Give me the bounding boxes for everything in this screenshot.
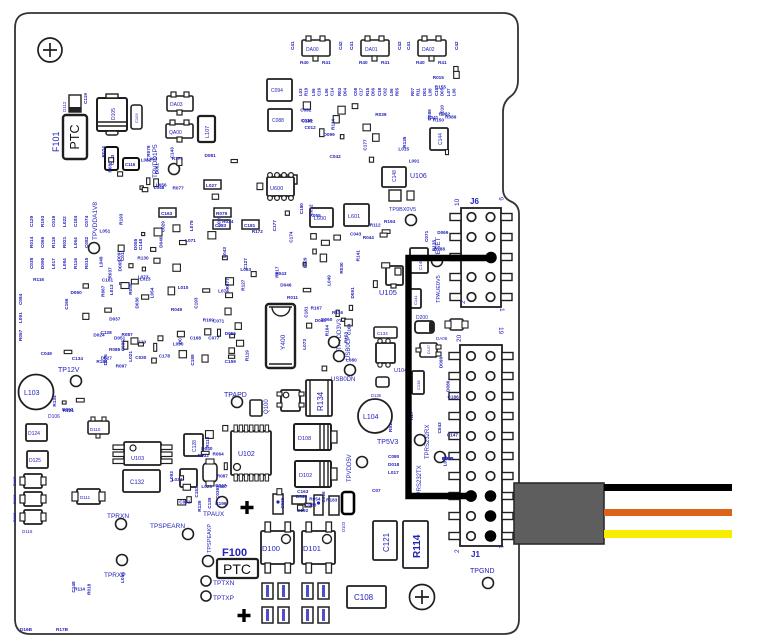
svg-text:19: 19 — [497, 327, 504, 335]
cluster of small unlabeled passives (upper center) — [300, 102, 448, 164]
svg-text:L078: L078 — [189, 220, 194, 231]
svg-text:L104: L104 — [363, 414, 379, 421]
svg-text:C042: C042 — [330, 154, 342, 159]
svg-text:TP12V: TP12V — [58, 367, 80, 374]
testpoint pad TPRS232RX — [435, 452, 446, 463]
svg-text:R054: R054 — [309, 497, 321, 502]
polarity mark + (lower) — [238, 609, 251, 622]
svg-text:R193: R193 — [119, 213, 124, 225]
svg-text:R40: R40 — [359, 60, 368, 65]
IC U105 — [386, 266, 403, 288]
svg-text:R51: R51 — [388, 423, 393, 432]
small part below U106 — [389, 190, 401, 201]
inductor L104 — [358, 399, 392, 433]
svg-text:C129: C129 — [29, 215, 34, 227]
diode D125 — [27, 451, 48, 468]
svg-text:1: 1 — [497, 545, 504, 549]
svg-text:C41: C41 — [349, 41, 354, 50]
svg-text:DA03: DA03 — [170, 102, 183, 108]
svg-text:L015: L015 — [120, 572, 125, 583]
svg-text:C188: C188 — [190, 354, 195, 366]
svg-text:R116: R116 — [73, 258, 78, 269]
boxed polarized capacitor labels — [159, 175, 297, 229]
svg-text:L091: L091 — [409, 159, 420, 164]
svg-text:C071: C071 — [213, 319, 225, 324]
capacitor C132 — [123, 470, 160, 492]
testpoint pad TPAUX — [217, 497, 228, 508]
svg-text:L017: L017 — [388, 470, 399, 475]
svg-text:C147: C147 — [447, 433, 459, 438]
svg-text:R169: R169 — [203, 318, 215, 323]
svg-text:R112: R112 — [370, 222, 381, 227]
svg-text:R119: R119 — [245, 350, 250, 361]
svg-text:C071: C071 — [424, 230, 429, 242]
svg-text:C036: C036 — [215, 487, 220, 499]
svg-text:1: 1 — [498, 308, 505, 312]
left-edge vertical labels — [18, 293, 23, 341]
svg-text:Y400: Y400 — [280, 334, 287, 350]
svg-text:L049: L049 — [326, 275, 331, 286]
svg-text:U600: U600 — [270, 186, 283, 192]
svg-text:D04: D04 — [343, 87, 348, 96]
svg-text:D061: D061 — [155, 163, 160, 175]
svg-text:C177: C177 — [363, 139, 368, 151]
svg-text:L021: L021 — [128, 351, 133, 362]
PCB board outline — [15, 13, 519, 634]
svg-text:C181: C181 — [244, 223, 256, 228]
svg-text:U103: U103 — [131, 456, 144, 462]
capacitor C103 (small, right of D105) — [131, 105, 142, 129]
svg-text:R044: R044 — [363, 235, 375, 240]
svg-text:C14: C14 — [330, 87, 335, 96]
svg-text:DA01: DA01 — [365, 47, 378, 53]
diode chain D117-D119 (left edge) — [12, 474, 46, 534]
svg-text:R15: R15 — [365, 87, 370, 96]
testpoint pad TPSPEARN — [183, 529, 194, 540]
testpoint pad TPVDDA1V8 — [89, 243, 100, 254]
transistor DA02 — [406, 36, 459, 65]
svg-text:R141: R141 — [355, 250, 360, 262]
svg-text:D119: D119 — [12, 512, 17, 522]
svg-text:R018: R018 — [87, 583, 92, 595]
svg-text:C103: C103 — [134, 113, 139, 123]
testpoint pad TPRXN — [116, 519, 127, 530]
svg-text:C065: C065 — [280, 497, 285, 509]
capacitor C108 — [347, 586, 386, 608]
svg-text:R021: R021 — [62, 236, 67, 248]
svg-text:D040: D040 — [159, 236, 164, 248]
capacitor C144 — [430, 128, 448, 150]
wire junction dot at J1 — [465, 490, 477, 502]
svg-text:F100: F100 — [222, 547, 247, 559]
svg-text:D089: D089 — [427, 109, 432, 121]
capacitor C117 — [180, 469, 197, 487]
svg-text:USB0DN: USB0DN — [331, 377, 355, 383]
svg-text:C119: C119 — [83, 93, 88, 104]
svg-text:D024: D024 — [93, 332, 105, 337]
header J1 outline — [460, 345, 502, 546]
svg-text:C127: C127 — [243, 258, 248, 270]
svg-text:D107: D107 — [427, 345, 431, 354]
cluster of small unlabeled passives (center) — [272, 203, 395, 300]
svg-text:L054: L054 — [149, 287, 154, 298]
svg-text:R088: R088 — [128, 283, 133, 295]
cluster of small unlabeled passives (below Y400) — [302, 305, 357, 370]
svg-text:U104: U104 — [394, 368, 407, 374]
svg-text:R077: R077 — [173, 185, 185, 190]
svg-text:C181: C181 — [303, 306, 308, 318]
svg-text:R039: R039 — [375, 112, 387, 117]
svg-text:R135: R135 — [402, 136, 407, 148]
svg-text:DA08: DA08 — [436, 336, 448, 341]
svg-text:TPSPEARN: TPSPEARN — [150, 523, 185, 530]
testpoint pad USB0CP — [329, 337, 340, 348]
svg-text:C011: C011 — [120, 250, 125, 261]
svg-text:D112: D112 — [62, 101, 67, 112]
capacitor C136 — [376, 377, 389, 387]
cluster of small unlabeled passives (above J1 labels) — [437, 357, 459, 467]
cluster of small unlabeled passives (u102 left) — [198, 426, 229, 500]
cluster of small unlabeled passives (J6 left labels) — [424, 230, 449, 252]
svg-text:L103: L103 — [24, 390, 40, 397]
svg-text:R188: R188 — [434, 247, 446, 252]
svg-text:L010: L010 — [178, 285, 189, 290]
svg-text:C42: C42 — [338, 41, 343, 50]
svg-text:C08: C08 — [353, 87, 358, 96]
transistor D107 — [416, 343, 441, 357]
svg-text:D16B: D16B — [20, 627, 33, 632]
svg-text:R114: R114 — [331, 119, 336, 130]
svg-text:C116: C116 — [125, 162, 136, 167]
fiducial mark bottom-center — [410, 585, 435, 610]
svg-text:C159: C159 — [225, 359, 237, 364]
svg-text:D062: D062 — [62, 407, 74, 412]
PTC fuse F100 body — [217, 559, 258, 578]
svg-text:D056: D056 — [225, 331, 237, 336]
svg-text:9: 9 — [497, 197, 504, 201]
svg-text:R067: R067 — [101, 285, 106, 297]
svg-text:R41: R41 — [381, 60, 390, 65]
svg-text:D101: D101 — [303, 544, 321, 553]
capacitor C148 — [382, 167, 406, 187]
svg-text:J6: J6 — [470, 197, 479, 206]
transistor DA00 — [290, 36, 343, 65]
svg-text:R055: R055 — [310, 213, 322, 218]
svg-text:L029: L029 — [303, 257, 308, 268]
svg-text:20: 20 — [456, 334, 463, 342]
svg-text:R116: R116 — [33, 277, 44, 282]
svg-text:C084: C084 — [18, 293, 23, 305]
svg-text:C177: C177 — [272, 220, 277, 232]
small filter below J6 — [445, 319, 468, 330]
polarity mark + (upper) — [241, 501, 254, 514]
svg-text:C138: C138 — [416, 380, 421, 390]
capacitor C138 — [412, 371, 424, 394]
svg-text:TPTXP: TPTXP — [213, 595, 234, 602]
svg-text:R049: R049 — [171, 307, 183, 312]
testpoint pad TPTXN — [201, 576, 211, 586]
svg-text:C083: C083 — [305, 503, 317, 508]
svg-text:TPVDD5V: TPVDD5V — [347, 454, 353, 482]
IC U600 — [267, 173, 294, 201]
svg-text:C161: C161 — [102, 278, 114, 283]
cluster of small unlabeled passives (left column mid) — [33, 277, 89, 361]
svg-text:C186: C186 — [448, 395, 460, 400]
header J6 pin holes — [467, 213, 495, 302]
IC U103 — [113, 442, 172, 465]
crystal Y400 — [266, 304, 295, 368]
capacitor C141 — [410, 289, 421, 308]
cluster of small unlabeled passives (left mid band) — [99, 239, 160, 300]
transistor QA00 — [166, 120, 193, 142]
svg-text:C077: C077 — [208, 336, 220, 341]
diode D200 body — [415, 321, 434, 333]
svg-text:R082: R082 — [439, 112, 451, 117]
svg-text:R164: R164 — [325, 325, 330, 337]
svg-text:C029: C029 — [160, 221, 165, 233]
black lead wire — [604, 484, 732, 491]
cluster of small unlabeled passives (mid-left) — [100, 213, 264, 297]
svg-text:R167: R167 — [311, 306, 323, 311]
svg-text:R183: R183 — [326, 498, 338, 503]
testpoint pad RESET — [432, 256, 443, 267]
svg-text:R181: R181 — [96, 359, 108, 364]
svg-text:L073: L073 — [302, 339, 307, 350]
capacitor C128 — [184, 434, 203, 456]
svg-text:R127: R127 — [241, 279, 246, 291]
svg-text:R134: R134 — [316, 391, 325, 411]
svg-text:L107: L107 — [205, 126, 211, 138]
svg-text:R085: R085 — [109, 347, 121, 352]
small ic U100 — [250, 400, 262, 416]
svg-text:C148: C148 — [392, 170, 398, 182]
svg-text:R187: R187 — [216, 484, 228, 489]
svg-text:2: 2 — [460, 300, 467, 304]
capacitor C088 — [268, 109, 292, 131]
svg-text:C163: C163 — [161, 211, 173, 216]
svg-text:C184: C184 — [73, 215, 78, 227]
cluster of small unlabeled passives (between C132 and U102) — [169, 471, 228, 512]
svg-text:D069: D069 — [437, 230, 449, 235]
svg-text:R05: R05 — [395, 87, 400, 96]
svg-text:C144: C144 — [438, 133, 444, 145]
testpoint pad TPTXP — [201, 591, 211, 601]
svg-text:D103: D103 — [341, 521, 346, 532]
svg-text:C134: C134 — [72, 356, 84, 361]
svg-text:L027: L027 — [206, 183, 217, 188]
svg-text:C128: C128 — [192, 440, 198, 452]
svg-text:DA00: DA00 — [306, 47, 319, 53]
yellow lead wire — [604, 530, 732, 538]
svg-text:R114: R114 — [412, 534, 423, 558]
svg-text:L091: L091 — [18, 312, 23, 323]
diode D102 — [295, 461, 337, 487]
svg-text:R40: R40 — [416, 60, 425, 65]
testpoint pad TPGND — [483, 578, 494, 589]
svg-text:Q100: Q100 — [264, 399, 270, 414]
svg-text:C42: C42 — [454, 41, 459, 50]
svg-text:R193: R193 — [40, 215, 45, 227]
svg-text:R064: R064 — [213, 451, 225, 456]
svg-text:L06: L06 — [324, 88, 329, 96]
inductor L601 — [344, 204, 369, 226]
svg-text:C074: C074 — [84, 215, 89, 227]
svg-text:C016: C016 — [321, 491, 326, 503]
wire from J6 pin to J1 pin (thick black net) — [409, 258, 491, 496]
svg-text:DA02: DA02 — [422, 47, 435, 53]
svg-text:D117: D117 — [12, 476, 17, 486]
svg-text:L06: L06 — [389, 88, 394, 96]
svg-text:C139: C139 — [207, 497, 212, 509]
cluster of small unlabeled passives (bottom left texts) — [71, 572, 125, 595]
svg-text:L601: L601 — [348, 214, 360, 220]
svg-text:D099: D099 — [324, 132, 336, 137]
svg-text:C065: C065 — [40, 236, 45, 248]
svg-text:D106: D106 — [48, 414, 60, 420]
svg-text:C091: C091 — [179, 500, 191, 505]
header J1 side pads — [449, 353, 513, 540]
svg-text:D049: D049 — [296, 494, 308, 499]
svg-text:C163: C163 — [297, 489, 309, 494]
svg-text:C17: C17 — [359, 87, 364, 96]
svg-text:D105: D105 — [111, 108, 117, 120]
svg-text:C035: C035 — [121, 340, 126, 352]
svg-text:C148: C148 — [138, 239, 143, 251]
svg-text:C019: C019 — [51, 215, 56, 227]
svg-text:C049: C049 — [41, 351, 53, 356]
svg-text:R057: R057 — [18, 329, 23, 341]
cluster of small unlabeled passives (center-left lower) — [101, 297, 250, 364]
svg-text:C092: C092 — [300, 108, 312, 113]
svg-text:U106: U106 — [410, 173, 427, 180]
svg-text:U102: U102 — [238, 451, 255, 458]
diode bridge D101 — [302, 522, 335, 573]
diode bridge D100 — [261, 522, 294, 573]
diode D108 — [294, 424, 337, 450]
wire junction dot at J6 — [485, 252, 497, 264]
svg-text:C121: C121 — [382, 532, 391, 552]
svg-text:R118: R118 — [51, 237, 56, 248]
svg-text:R017: R017 — [275, 266, 280, 278]
svg-text:C094: C094 — [271, 88, 283, 94]
svg-text:C193: C193 — [194, 297, 199, 309]
transistor DA03 — [167, 92, 193, 115]
svg-text:D051: D051 — [114, 336, 126, 341]
svg-text:TPAUX: TPAUX — [203, 511, 225, 518]
svg-text:R07: R07 — [410, 87, 415, 96]
svg-text:TPVDDA1V8: TPVDDA1V8 — [92, 202, 99, 240]
svg-text:R155: R155 — [435, 84, 447, 89]
row of capacitor labels along top — [298, 87, 457, 96]
svg-text:R40: R40 — [300, 60, 309, 65]
svg-text:TPSPEAKP: TPSPEAKP — [207, 524, 213, 553]
svg-text:PTC: PTC — [68, 125, 82, 150]
inductor L103 — [19, 375, 54, 410]
svg-text:C148: C148 — [71, 581, 76, 593]
svg-text:D102: D102 — [299, 473, 312, 479]
testpoint pad TPVDD1P5 — [169, 164, 180, 175]
svg-text:L073: L073 — [138, 275, 149, 280]
svg-text:C080: C080 — [388, 454, 400, 459]
svg-text:D124: D124 — [28, 431, 40, 437]
svg-text:C030: C030 — [135, 355, 147, 360]
diode D112 — [69, 95, 81, 112]
svg-text:C012: C012 — [305, 125, 317, 130]
svg-text:C178: C178 — [159, 353, 171, 358]
svg-text:L064: L064 — [73, 237, 78, 248]
svg-text:C132: C132 — [130, 480, 145, 486]
svg-text:D110: D110 — [90, 427, 101, 432]
capacitor C113 (boxed) — [105, 147, 118, 170]
svg-text:R134: R134 — [52, 395, 57, 407]
PTC fuse F101 body — [63, 115, 87, 159]
header J1 pin holes — [465, 352, 496, 542]
svg-text:C043: C043 — [437, 422, 442, 434]
svg-text:L093: L093 — [169, 471, 174, 482]
svg-text:L03: L03 — [298, 88, 303, 96]
svg-text:R087: R087 — [217, 474, 229, 479]
svg-text:R41: R41 — [438, 60, 447, 65]
svg-text:F101: F101 — [51, 131, 61, 152]
svg-text:U105: U105 — [379, 288, 397, 297]
IC Q100 package — [277, 390, 304, 411]
svg-text:C134: C134 — [377, 331, 388, 336]
resistor R114 — [403, 521, 428, 568]
svg-text:L022: L022 — [62, 216, 67, 227]
svg-text:D090: D090 — [40, 257, 45, 269]
svg-text:D098: D098 — [438, 357, 443, 369]
transistor DA01 — [349, 36, 402, 65]
svg-text:C043: C043 — [350, 231, 362, 236]
svg-text:R097: R097 — [116, 363, 128, 368]
svg-text:C082: C082 — [84, 236, 89, 248]
inductor L107 — [198, 116, 215, 142]
svg-text:D018: D018 — [388, 462, 400, 467]
capacitor C121 — [373, 521, 397, 560]
cluster of small unlabeled passives (upper mid-left) — [101, 145, 263, 199]
svg-text:D081: D081 — [205, 153, 217, 158]
svg-text:R014: R014 — [29, 236, 34, 248]
diode D111 — [72, 489, 105, 504]
svg-text:D060: D060 — [321, 317, 333, 322]
testpoint pad TPAPD — [232, 397, 243, 408]
svg-text:L020: L020 — [201, 484, 212, 489]
testpoint pad TPSPEAKP — [203, 556, 214, 567]
svg-text:D116: D116 — [22, 529, 33, 534]
svg-text:C166: C166 — [64, 298, 69, 310]
svg-text:R17B: R17B — [56, 627, 69, 632]
cluster of electrolytic caps (bottom) — [262, 583, 329, 623]
capacitor D105 (electrolytic) — [97, 98, 127, 131]
svg-text:L080: L080 — [346, 358, 357, 363]
testpoint pad TP9BX0V5 — [406, 215, 417, 226]
svg-text:D080: D080 — [445, 380, 450, 392]
svg-text:TP9BX0V5: TP9BX0V5 — [389, 207, 416, 213]
svg-text:R139: R139 — [197, 500, 202, 512]
svg-text:C168: C168 — [190, 335, 202, 340]
svg-text:D037: D037 — [109, 316, 121, 321]
fiducial mark top-left — [38, 38, 62, 62]
bottom-left tiny labels — [20, 627, 69, 632]
svg-text:L043: L043 — [222, 247, 227, 258]
connector housing (gray) plugged into J1 — [514, 483, 604, 544]
svg-text:R153: R153 — [343, 332, 348, 344]
svg-text:L048: L048 — [154, 185, 165, 190]
header J6 side pads — [450, 214, 512, 301]
diode D124 — [26, 424, 47, 441]
cluster of small unlabeled passives (right of U102) — [277, 489, 338, 513]
svg-text:QA00: QA00 — [169, 130, 182, 136]
